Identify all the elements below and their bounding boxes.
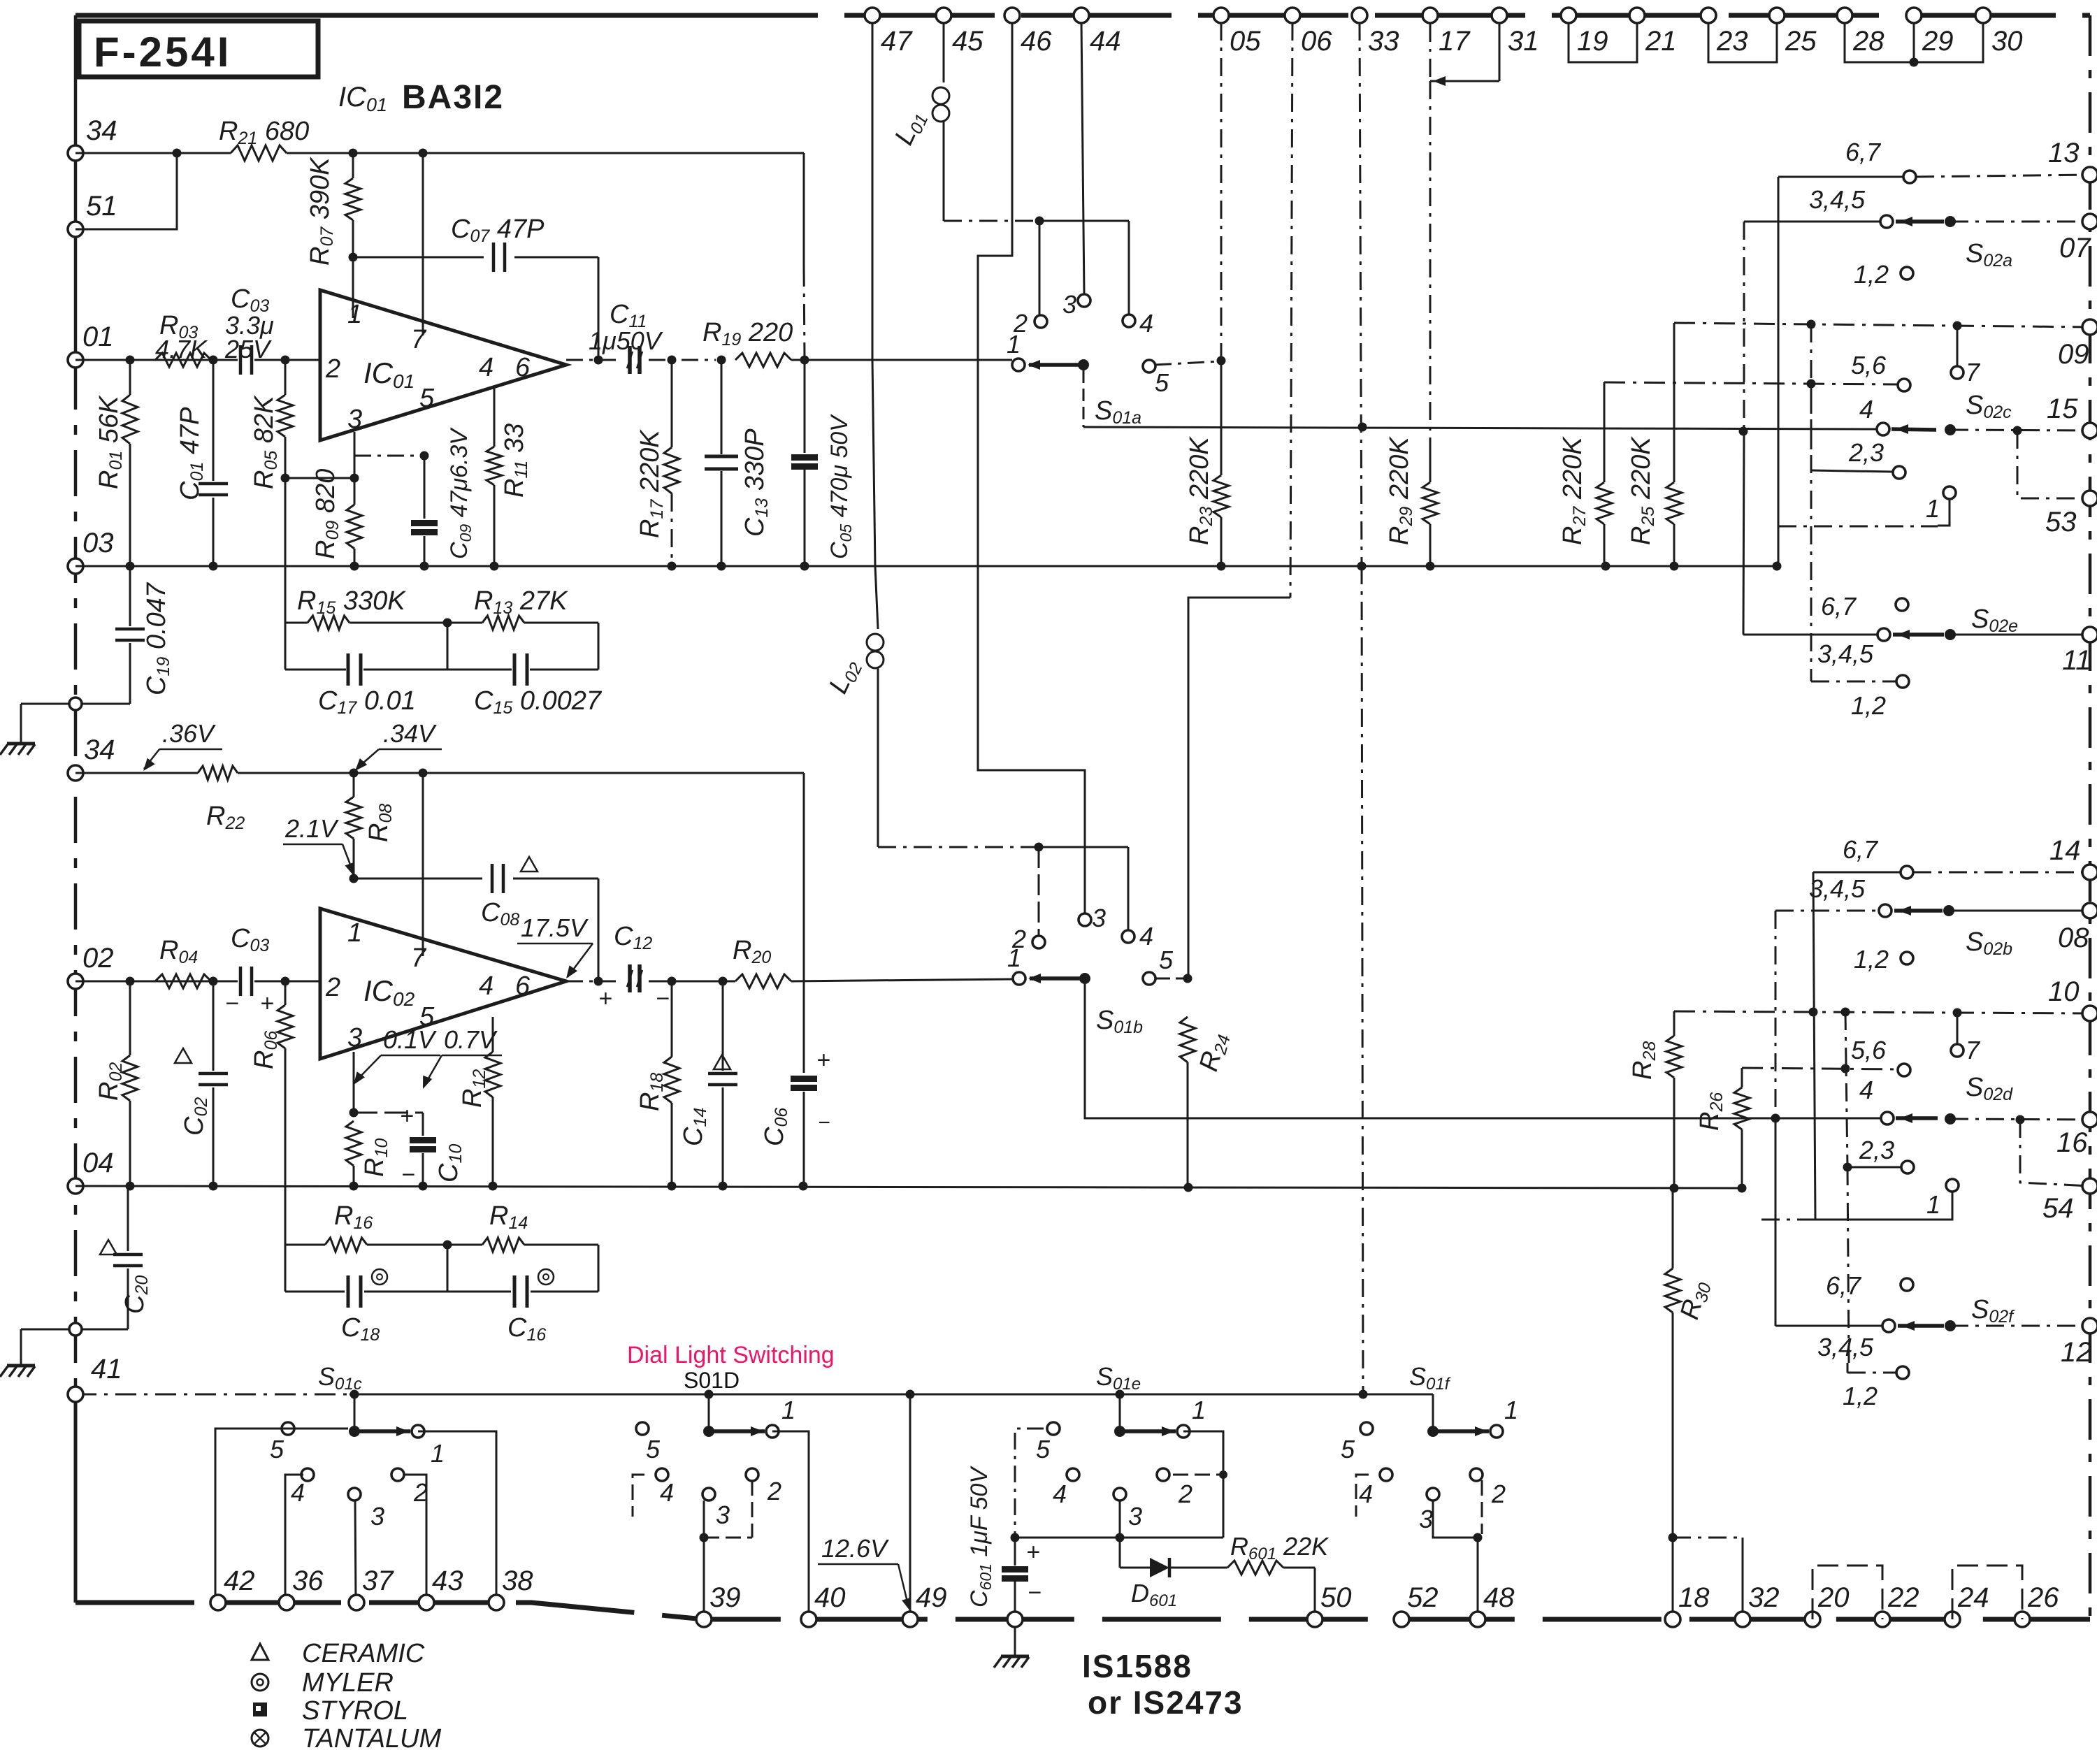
terminal 11 [2062,627,2097,676]
svg-text:C17 0.01: C17 0.01 [318,686,416,718]
svg-text:0.1V: 0.1V [383,1025,437,1054]
border frame right [2089,15,2092,1619]
label .34V [355,719,442,771]
svg-text:0.7V: 0.7V [444,1025,498,1054]
terminal 28 [1837,8,1885,57]
wire C08 feedback [349,874,599,883]
terminal 18 [1665,1582,1710,1627]
switch S02a 3,4,5 [1744,185,2090,270]
svg-text:7: 7 [411,325,427,354]
svg-text:3: 3 [1128,1502,1142,1531]
resistor R06 [250,981,293,1245]
terminal 14 [2049,835,2097,880]
capacitor C03 3.3u 25V [224,284,274,375]
resistor R20 [716,936,1013,988]
svg-text:5: 5 [270,1435,284,1463]
svg-text:08: 08 [2058,923,2089,953]
wire terminal45 to L01 [943,22,945,82]
svg-text:R05 82K: R05 82K [250,395,281,489]
resistor R21 680 [219,117,309,161]
svg-text:4: 4 [1859,1076,1873,1104]
terminal 36 [279,1566,324,1610]
svg-text:F-254I: F-254I [94,29,231,75]
wire feedback top [285,619,598,628]
terminal 07 [2059,214,2097,263]
svg-text:15: 15 [2047,393,2078,424]
capacitor C13 330P [705,360,772,566]
resistor R30 [1665,1188,1715,1542]
svg-text:17.5V: 17.5V [521,913,589,942]
terminal 49 [902,1582,947,1627]
svg-text:+: + [1026,1539,1040,1566]
wire S02c 5,6 line [1604,351,1910,391]
svg-text:28: 28 [1852,26,1885,57]
terminal 06 [1285,8,1332,57]
terminal 17 [1422,8,1471,57]
svg-text:6: 6 [515,971,531,1001]
box under terminals 20-22 [1813,1566,1882,1619]
svg-text:6,7: 6,7 [1826,1271,1862,1300]
legend tantalum [252,1724,441,1754]
terminal 51 [68,191,117,237]
svg-text:43: 43 [432,1566,463,1596]
legend myler [252,1668,394,1698]
terminal 43 [419,1566,463,1610]
svg-text:4: 4 [660,1478,674,1507]
wire rail-34 drop to C05 node [804,153,805,360]
svg-text:1: 1 [781,1396,795,1424]
resistor R23 220K [1185,22,1229,566]
svg-text:29: 29 [1922,26,1954,57]
capacitor C14 [679,981,737,1186]
capacitor C16 [507,1269,554,1345]
wire feedback box [285,623,598,670]
wire 02 line [75,977,320,986]
wire 49 riser [909,1394,911,1619]
wire rail 34 [75,149,804,158]
svg-text:C07 47P: C07 47P [451,215,545,246]
svg-text:C19 0.047: C19 0.047 [142,581,173,695]
wire C08 to output [598,879,600,981]
resistor R24 [1180,1017,1234,1187]
terminal C601 ground [994,1612,1029,1668]
wire L02 to S01b [878,668,1128,930]
svg-text:C13 330P: C13 330P [740,428,772,537]
svg-text:1,2: 1,2 [1854,945,1889,974]
svg-text:2: 2 [325,973,340,1002]
switch S01c [270,1362,445,1531]
svg-text:1: 1 [1192,1396,1206,1424]
terminal 44 [1074,8,1121,57]
svg-text:09: 09 [2058,339,2089,370]
switch S01e [1036,1362,1206,1531]
svg-text:1: 1 [1504,1396,1518,1424]
svg-text:25: 25 [1785,26,1817,57]
svg-text:2: 2 [767,1477,781,1505]
label 0.1V [354,1025,440,1085]
terminal 22 [1875,1582,1919,1627]
pin5 stub [354,451,429,461]
svg-text:−: − [1028,1579,1042,1606]
switch S02f 3,4,5 [1775,1295,2090,1361]
border frame left [74,15,78,1603]
capacitor C03 lower [225,924,274,1017]
wire S02c 23 bus [1810,324,1813,470]
svg-text:13: 13 [2048,138,2080,168]
resistor R08 [346,773,396,879]
svg-text:7: 7 [411,944,427,973]
svg-text:R07 390K: R07 390K [305,157,337,266]
terminal 32 [1735,1582,1780,1627]
svg-text:40: 40 [814,1582,846,1613]
terminal 03 [68,528,114,574]
switch S02b 3,4,5 [1775,874,2090,959]
svg-text:3: 3 [1092,904,1106,932]
pin7 riser [422,153,424,335]
svg-text:16: 16 [2056,1127,2088,1158]
pin3 stub [281,432,359,505]
svg-text:3: 3 [1419,1505,1433,1533]
svg-text:3: 3 [347,1023,362,1053]
switch S01a [1007,290,1169,428]
svg-text:4: 4 [1859,395,1873,424]
capacitor C10 [400,1103,466,1188]
svg-text:53: 53 [2045,507,2077,537]
wire S02d 23 bus [1845,1012,1847,1167]
capacitor C18 [341,1269,387,1345]
svg-text:38: 38 [502,1566,533,1596]
contact S02b 1,2 [1854,945,1913,974]
resistor R25 220K [1627,323,1682,566]
ground symbol bottom-left [0,1329,35,1377]
svg-text:−: − [818,1111,830,1134]
contact S02f 6,7 [1826,1167,1913,1363]
svg-text:52: 52 [1407,1582,1439,1613]
wire S01c c5 to 42 [215,1429,348,1603]
svg-text:1: 1 [1926,1190,1940,1219]
wire rail34L drop to C06 [803,773,805,983]
label .36V [143,719,222,771]
wire S01f c2 drop [1481,1480,1483,1534]
wire S01d c2 stub [700,1480,753,1542]
svg-text:34: 34 [84,735,115,765]
box under terminals 28-29 [1845,24,1919,67]
svg-text:2: 2 [325,354,340,384]
contact S02d 1 [1761,1179,1959,1220]
terminal 47 [865,8,913,57]
svg-text:−: − [401,1162,415,1188]
svg-text:36: 36 [292,1566,324,1596]
wire terminal44 to S01a c3 [1081,22,1084,294]
wire S02b 6,7 line [1813,866,2090,879]
annotation Dial Light Switching [627,1342,835,1368]
svg-text:or IS2473: or IS2473 [1088,1684,1244,1721]
svg-text:49: 49 [916,1582,947,1613]
legend ceramic [252,1639,425,1668]
svg-text:6,7: 6,7 [1845,138,1882,166]
capacitor C19 0.047 [115,566,173,704]
border frame bottom [75,1603,2090,1619]
svg-text:5: 5 [1036,1435,1051,1463]
wire S01b c5 to R24 [1156,974,1192,983]
terminal 31 [1492,8,1539,57]
box under terminals 24-26 [1952,1566,2022,1619]
terminal 41 [68,1354,122,1402]
wire S02b 6,7 bus [1813,872,1815,1220]
legend styrol [253,1696,408,1726]
terminal 25 [1769,8,1817,57]
wire S02a 6,7 line [1778,171,2090,183]
pin5 stub IC02 [349,1052,424,1118]
resistor R02 [94,981,138,1186]
box under terminals 23-25 [1708,24,1777,62]
label 1S1588 [1082,1648,1244,1721]
svg-text:19: 19 [1577,26,1608,57]
terminal 02 [68,943,114,989]
svg-text:04: 04 [82,1148,114,1178]
switch S02d 2,3 [1843,1136,1915,1173]
svg-text:48: 48 [1483,1582,1515,1613]
svg-text:5,6: 5,6 [1851,351,1887,379]
wire S01d c3 to 39 [703,1501,705,1619]
wire C07 to output [598,257,600,360]
wire terminal46 path [978,22,1085,913]
wire 15-line [1083,423,2090,436]
capacitor C15 0.0027 [474,653,603,718]
svg-text:Dial Light Switching: Dial Light Switching [627,1342,835,1368]
svg-text:−: − [656,985,670,1012]
svg-text:+: + [260,990,274,1017]
svg-text:47: 47 [881,26,913,57]
svg-text:46: 46 [1021,26,1052,57]
svg-text:1,2: 1,2 [1843,1382,1878,1410]
box under terminals 29-30 [1914,24,1983,62]
contact S02c 7 [1951,326,1981,386]
svg-text:1: 1 [1926,494,1940,523]
wire feedback top IC02 [285,1241,598,1250]
wire output line [566,356,726,365]
box under terminals 19-21 [1569,24,1637,62]
wire 10 line [1674,1008,2090,1018]
resistor R17 220K [635,360,679,566]
resistor R10 [346,1121,391,1186]
wire S02d 5,6 line [1742,1036,1910,1076]
wire terminal47 to L02 [872,22,878,629]
svg-text:7: 7 [1966,358,1981,386]
contact S02a 1,2 [1854,260,1913,289]
wire 15 to 53 drop [2017,431,2090,498]
capacitor C06 [760,981,830,1186]
svg-text:02: 02 [82,943,114,974]
svg-text:R25 220K: R25 220K [1627,436,1658,545]
svg-text:6: 6 [515,353,531,382]
terminal 34 [68,115,117,161]
svg-text:1,2: 1,2 [1854,260,1889,289]
svg-text:4: 4 [1053,1480,1067,1508]
svg-text:4: 4 [1139,922,1153,950]
annotation S01D [684,1368,740,1393]
svg-text:R19 220: R19 220 [702,318,793,349]
ground node top-left [21,697,130,710]
terminal 52 [1394,1582,1439,1627]
resistor R16 [325,1201,373,1252]
svg-text:R21 680: R21 680 [219,117,309,148]
svg-text:2: 2 [1011,925,1026,953]
svg-text:10: 10 [2048,976,2080,1007]
svg-text:5: 5 [1341,1435,1355,1463]
wire 03 line [75,562,1782,571]
switch S01b [1007,904,1174,1037]
svg-text:3,4,5: 3,4,5 [1809,874,1866,903]
capacitor C601 1uF 50V [966,1466,1042,1613]
capacitor C20 [100,1186,152,1329]
svg-text:2,3: 2,3 [1848,438,1884,467]
svg-text:11: 11 [2062,645,2091,676]
svg-text:R15 330K: R15 330K [297,586,406,618]
svg-text:C01 47P: C01 47P [175,407,207,500]
resistor R601 22K [1227,1532,1329,1619]
wire terminal33 down [1359,22,1368,1399]
wire S02a 6,7 bus [1778,177,1780,565]
terminal 38 [489,1566,533,1610]
label S02a 6,7 [1845,138,1882,166]
switch S02c 2,3 [1811,438,1905,479]
resistor R13 27K [474,586,568,630]
svg-text:4: 4 [1359,1480,1373,1508]
svg-text:1: 1 [347,918,362,948]
terminal 53 [2045,491,2097,537]
capacitor C09 47u 6.3V [411,427,475,566]
box under terminals 17-31 [1430,24,1499,86]
terminal 40 [801,1582,846,1627]
resistor R07 390K [305,153,361,318]
svg-text:54: 54 [2042,1193,2074,1224]
svg-text:25V: 25V [224,335,272,363]
label S02c 4 [1859,391,2012,424]
svg-text:22: 22 [1887,1582,1919,1613]
wire S01e bottom bus [1011,1533,1224,1542]
svg-text:32: 32 [1748,1582,1780,1613]
svg-text:3: 3 [716,1501,730,1529]
terminal 50 [1307,1582,1352,1627]
terminal 29 [1906,8,1954,57]
wire S01d c1 to 40 [772,1431,809,1619]
svg-text:41: 41 [91,1354,122,1385]
svg-text:1: 1 [431,1439,445,1468]
svg-text:3,4,5: 3,4,5 [1817,639,1874,668]
svg-text:01: 01 [82,321,114,352]
terminal 05 [1213,8,1261,57]
svg-text:3: 3 [370,1502,384,1531]
wire S01c c3 to 37 [355,1501,356,1603]
wire S01d c4 stub [633,1475,644,1517]
terminal 54 [2042,1178,2097,1224]
label S02d 4 [1859,1073,2013,1104]
terminal 42 [210,1566,255,1610]
terminal 48 [1470,1582,1515,1627]
capacitor C02 [175,981,228,1186]
wire S01c c2 to 43 [404,1475,426,1603]
wire S01b wiper drop [1085,984,1880,1118]
label S02b 6,7 [1843,835,1879,864]
capacitor C12 [598,922,670,1012]
label 0.7V [423,1025,502,1089]
capacitor C11 1u 50V [589,300,663,374]
svg-text:5: 5 [646,1435,661,1463]
svg-text:4: 4 [479,971,493,1001]
terminal 19 [1561,8,1608,57]
wire 09 line [1674,320,2090,331]
label 2.1V [283,814,354,876]
op-amp IC02 [320,909,566,1059]
label IC01 BA312 [338,79,504,116]
wire S02b 3,4,5 bus [1771,911,1780,1326]
inductor L01 [889,87,949,150]
terminal 16 [2056,1112,2097,1158]
terminal 12 [2061,1318,2097,1368]
wire L01 to S01a [944,122,1129,315]
wire rail 34 lower [75,769,804,778]
svg-text:4.7K: 4.7K [155,335,208,363]
wire S01c c4 to 36 [285,1475,303,1603]
resistor R27 220K [1558,382,1612,566]
switch S01f [1341,1362,1518,1533]
svg-text:03: 03 [82,528,114,558]
terminal 30 [1975,8,2023,57]
svg-text:R27 220K: R27 220K [1558,436,1590,545]
svg-text:1μ50V: 1μ50V [589,326,663,355]
pin7 riser IC02 [422,773,424,956]
svg-text:R17 220K: R17 220K [635,429,667,538]
svg-text:R23 220K: R23 220K [1185,436,1216,545]
capacitor C17 0.01 [318,653,416,718]
svg-text:07: 07 [2059,233,2091,263]
svg-text:3,4,5: 3,4,5 [1809,185,1866,214]
svg-text:4: 4 [291,1478,305,1507]
resistor R04 [155,936,211,988]
svg-text:.36V: .36V [162,719,216,748]
resistor R19 220 [702,318,1012,367]
switch S01d [636,1394,795,1529]
svg-text:CERAMIC: CERAMIC [302,1639,425,1668]
wire S01a c5 to R23 [1155,356,1226,366]
wire S01e c3 drop [1119,1501,1121,1538]
terminal 20 [1805,1582,1850,1627]
svg-text:33: 33 [1368,26,1399,57]
wire S01e c1 loop [1173,1431,1227,1538]
wire 01 line [75,356,320,365]
svg-text:R29 220K: R29 220K [1385,436,1416,545]
terminal 21 [1629,8,1677,57]
resistor R09 820 [311,469,362,566]
svg-text:1,2: 1,2 [1851,691,1886,720]
terminal 26 [2015,1582,2059,1627]
svg-text:+: + [598,985,612,1012]
capacitor C05 470u 50V [791,360,855,566]
svg-text:R601 22K: R601 22K [1230,1532,1329,1563]
svg-text:18: 18 [1678,1582,1710,1613]
contact S02d 7 [1951,1013,1981,1064]
svg-text:5,6: 5,6 [1851,1036,1887,1064]
capacitor C07 47P [451,215,545,272]
svg-text:24: 24 [1957,1582,1989,1613]
ground symbol top-left [0,704,35,755]
capacitor C01 47P [175,360,228,566]
svg-text:2.1V: 2.1V [284,814,339,843]
wire S01f c3 to 48 [1433,1501,1483,1619]
svg-text:34: 34 [86,115,117,146]
wire 41 common line [75,1390,1433,1399]
